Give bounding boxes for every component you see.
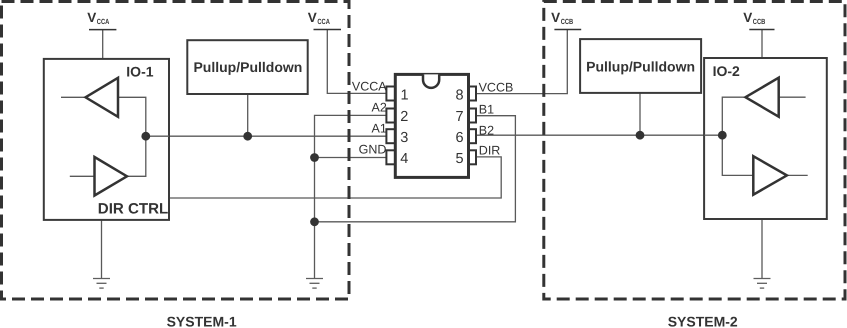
svg-text:Pullup/Pulldown: Pullup/Pulldown	[193, 59, 302, 75]
svg-text:CCA: CCA	[97, 17, 110, 26]
svg-text:1: 1	[401, 88, 409, 104]
svg-text:VCCB: VCCB	[479, 81, 514, 95]
svg-text:IO-1: IO-1	[126, 63, 153, 79]
svg-text:CCB: CCB	[561, 17, 574, 26]
svg-text:B1: B1	[479, 103, 494, 117]
svg-text:Pullup/Pulldown: Pullup/Pulldown	[586, 58, 695, 74]
svg-text:CCB: CCB	[753, 17, 766, 26]
svg-text:4: 4	[400, 151, 408, 167]
svg-text:CCA: CCA	[317, 17, 330, 26]
svg-text:A1: A1	[372, 121, 387, 135]
svg-text:3: 3	[400, 130, 408, 146]
svg-text:V: V	[87, 10, 96, 25]
svg-text:2: 2	[400, 109, 408, 125]
svg-text:5: 5	[456, 151, 464, 167]
svg-text:7: 7	[456, 109, 464, 125]
svg-text:GND: GND	[359, 143, 387, 157]
svg-text:V: V	[743, 10, 752, 25]
svg-text:A2: A2	[372, 100, 387, 114]
svg-text:6: 6	[456, 130, 464, 146]
svg-text:V: V	[551, 10, 560, 25]
svg-text:DIR CTRL: DIR CTRL	[98, 201, 169, 218]
svg-text:V: V	[308, 10, 317, 25]
svg-text:SYSTEM-1: SYSTEM-1	[167, 314, 237, 328]
svg-text:VCCA: VCCA	[352, 79, 387, 93]
svg-text:IO-2: IO-2	[713, 63, 740, 79]
svg-text:B2: B2	[479, 123, 494, 137]
svg-text:8: 8	[456, 88, 464, 104]
svg-text:SYSTEM-2: SYSTEM-2	[668, 314, 738, 328]
svg-text:DIR: DIR	[479, 144, 501, 158]
